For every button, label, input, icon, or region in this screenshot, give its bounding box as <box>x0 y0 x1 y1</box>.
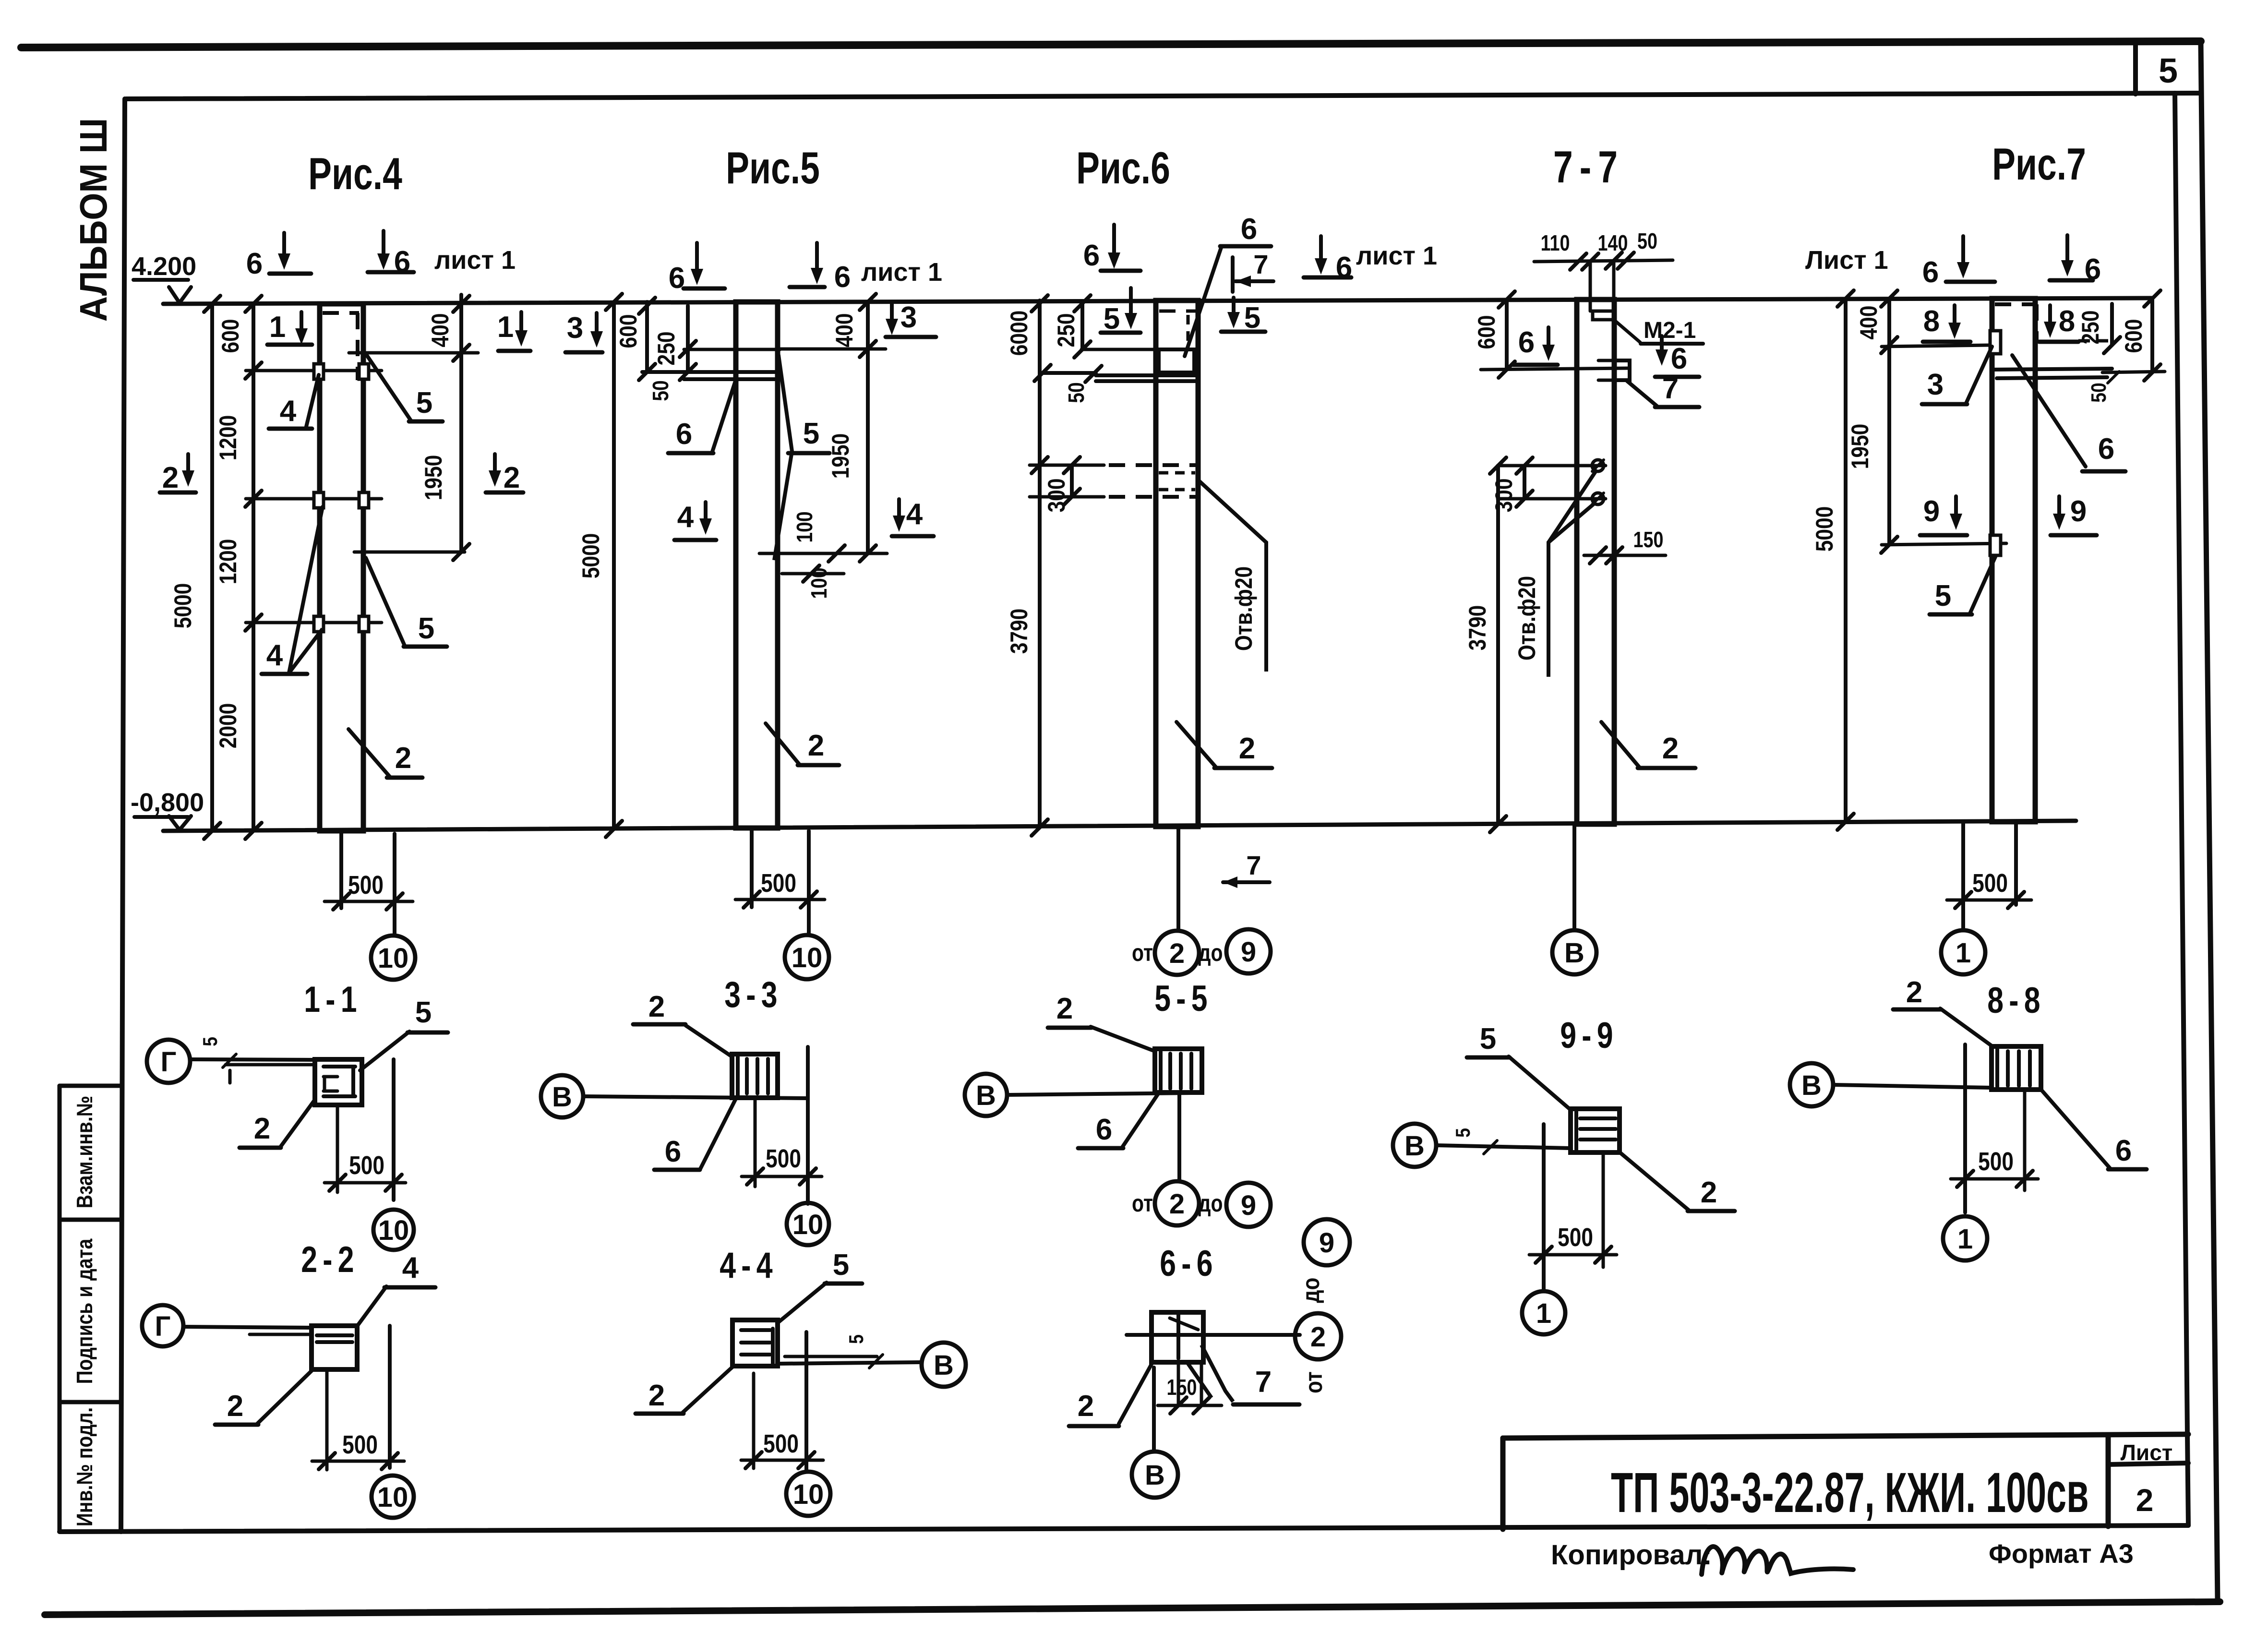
svg-text:7-7: 7-7 <box>1553 142 1624 192</box>
svg-text:6000: 6000 <box>1006 311 1032 356</box>
svg-text:4: 4 <box>906 498 923 531</box>
svg-text:лист 1: лист 1 <box>434 246 516 275</box>
svg-text:1950: 1950 <box>1847 424 1873 469</box>
svg-text:8: 8 <box>1923 305 1940 338</box>
svg-text:9-9: 9-9 <box>1560 1015 1618 1056</box>
svg-text:Лист 1: Лист 1 <box>1805 246 1888 275</box>
svg-text:Отв.ф20: Отв.ф20 <box>1513 576 1540 660</box>
svg-text:2: 2 <box>504 461 520 494</box>
svg-text:6: 6 <box>1922 256 1939 289</box>
svg-text:400: 400 <box>831 313 858 348</box>
svg-text:1: 1 <box>1957 1224 1973 1255</box>
svg-text:4: 4 <box>280 395 297 428</box>
svg-text:1-1: 1-1 <box>304 979 362 1020</box>
svg-text:Инв.№ подл.: Инв.№ подл. <box>72 1407 97 1526</box>
svg-text:2: 2 <box>1906 976 1922 1009</box>
svg-text:4: 4 <box>266 639 283 672</box>
svg-text:6: 6 <box>1518 326 1535 359</box>
svg-text:Взам.инв.№: Взам.инв.№ <box>72 1096 97 1209</box>
svg-text:2: 2 <box>2136 1482 2154 1518</box>
svg-text:50: 50 <box>1637 228 1657 253</box>
svg-text:10: 10 <box>793 1479 824 1510</box>
svg-text:5: 5 <box>1480 1022 1496 1056</box>
svg-text:2: 2 <box>648 990 665 1023</box>
svg-text:до: до <box>1198 1190 1223 1217</box>
svg-text:2000: 2000 <box>215 703 241 749</box>
svg-text:150: 150 <box>1167 1375 1197 1399</box>
svg-text:2: 2 <box>1078 1390 1094 1423</box>
svg-text:500: 500 <box>349 1151 384 1180</box>
svg-text:5000: 5000 <box>1811 506 1838 552</box>
svg-text:2: 2 <box>1169 1188 1185 1220</box>
svg-text:Лист: Лист <box>2121 1440 2173 1465</box>
svg-text:2: 2 <box>1239 732 1255 765</box>
svg-text:3: 3 <box>1927 368 1944 401</box>
svg-text:5: 5 <box>418 612 434 645</box>
svg-text:9: 9 <box>1319 1227 1334 1259</box>
svg-text:5: 5 <box>1935 579 1951 612</box>
svg-text:400: 400 <box>427 313 454 348</box>
svg-text:4: 4 <box>402 1251 419 1284</box>
svg-text:600: 600 <box>1473 315 1500 349</box>
svg-text:В: В <box>1404 1130 1425 1162</box>
svg-text:2: 2 <box>1056 992 1073 1025</box>
svg-text:6: 6 <box>2115 1134 2132 1167</box>
svg-text:3790: 3790 <box>1464 605 1491 651</box>
svg-text:4-4: 4-4 <box>720 1245 778 1286</box>
svg-text:6: 6 <box>665 1135 681 1168</box>
svg-text:Копировал:: Копировал: <box>1551 1539 1712 1571</box>
svg-text:Формат А3: Формат А3 <box>1989 1538 2134 1569</box>
svg-text:8: 8 <box>2059 305 2075 338</box>
svg-text:50: 50 <box>1064 382 1089 403</box>
svg-text:7: 7 <box>1255 1366 1272 1399</box>
svg-text:3: 3 <box>900 301 917 334</box>
svg-text:500: 500 <box>761 869 796 898</box>
svg-text:7: 7 <box>1662 372 1679 405</box>
svg-text:1: 1 <box>269 311 286 344</box>
svg-text:5: 5 <box>845 1334 867 1344</box>
svg-text:6: 6 <box>1241 213 1257 246</box>
svg-text:5: 5 <box>415 996 432 1029</box>
svg-text:600: 600 <box>2120 319 2147 353</box>
svg-text:500: 500 <box>1558 1223 1593 1252</box>
svg-text:6: 6 <box>676 418 692 451</box>
svg-text:Рис.5: Рис.5 <box>726 143 820 193</box>
svg-text:1: 1 <box>1956 937 1971 969</box>
svg-text:50: 50 <box>648 380 673 401</box>
svg-text:500: 500 <box>348 871 384 900</box>
svg-text:9: 9 <box>1241 936 1256 968</box>
svg-text:2: 2 <box>227 1390 243 1423</box>
svg-text:ТП 503-3-22.87, КЖИ. 100св: ТП 503-3-22.87, КЖИ. 100св <box>1611 1461 2088 1524</box>
svg-text:600: 600 <box>217 319 244 353</box>
svg-text:10: 10 <box>792 1209 824 1240</box>
svg-text:В: В <box>1564 937 1584 969</box>
svg-text:1950: 1950 <box>827 433 854 479</box>
svg-text:600: 600 <box>615 314 642 348</box>
svg-text:Г: Г <box>155 1311 171 1342</box>
svg-text:6-6: 6-6 <box>1160 1243 1218 1284</box>
svg-text:6: 6 <box>2098 432 2114 466</box>
svg-text:500: 500 <box>1978 1147 2014 1176</box>
svg-text:250: 250 <box>1053 313 1080 348</box>
svg-text:250: 250 <box>653 332 680 366</box>
svg-text:Отв.ф20: Отв.ф20 <box>1230 566 1257 651</box>
svg-text:В: В <box>1801 1070 1822 1101</box>
svg-text:1: 1 <box>497 311 514 344</box>
svg-text:2: 2 <box>648 1379 665 1412</box>
svg-text:500: 500 <box>342 1430 378 1459</box>
svg-text:1200: 1200 <box>215 415 241 461</box>
svg-text:Рис.7: Рис.7 <box>1992 139 2086 189</box>
svg-text:5: 5 <box>803 417 819 450</box>
svg-text:500: 500 <box>1972 869 2008 898</box>
svg-text:5000: 5000 <box>577 533 604 579</box>
svg-text:5: 5 <box>2159 52 2178 90</box>
svg-text:от: от <box>1132 939 1153 966</box>
svg-text:Г: Г <box>161 1046 177 1078</box>
svg-text:4.200: 4.200 <box>132 252 196 281</box>
svg-text:1200: 1200 <box>215 539 241 585</box>
svg-text:2: 2 <box>1701 1176 1717 1209</box>
svg-text:5: 5 <box>1452 1128 1474 1138</box>
svg-text:7: 7 <box>1253 249 1268 279</box>
svg-text:2: 2 <box>162 461 179 494</box>
svg-text:до: до <box>1297 1278 1324 1303</box>
svg-text:10: 10 <box>378 943 409 974</box>
svg-text:В: В <box>976 1080 996 1111</box>
svg-text:2: 2 <box>395 742 411 775</box>
svg-text:от: от <box>1132 1190 1153 1217</box>
svg-text:Рис.6: Рис.6 <box>1076 143 1170 193</box>
svg-text:3-3: 3-3 <box>724 974 782 1015</box>
svg-text:9: 9 <box>1241 1190 1256 1221</box>
svg-text:В: В <box>934 1350 954 1381</box>
svg-text:4: 4 <box>677 501 694 534</box>
svg-text:лист 1: лист 1 <box>1356 241 1437 270</box>
svg-text:Рис.4: Рис.4 <box>308 148 402 199</box>
svg-text:от: от <box>1300 1371 1327 1393</box>
svg-text:10: 10 <box>792 942 823 973</box>
svg-text:100: 100 <box>807 567 832 599</box>
svg-text:50: 50 <box>2087 383 2111 403</box>
svg-text:150: 150 <box>1633 527 1664 552</box>
svg-text:3: 3 <box>567 312 583 345</box>
svg-text:10: 10 <box>378 1215 409 1246</box>
svg-text:5: 5 <box>199 1037 221 1046</box>
svg-text:АЛЬБОМ Ш: АЛЬБОМ Ш <box>72 118 115 322</box>
svg-text:6: 6 <box>1083 239 1100 272</box>
svg-text:110: 110 <box>1541 230 1570 255</box>
svg-text:2: 2 <box>1310 1321 1326 1353</box>
svg-text:6: 6 <box>1096 1113 1112 1146</box>
svg-text:5-5: 5-5 <box>1154 978 1212 1019</box>
svg-text:5: 5 <box>416 386 432 420</box>
svg-text:6: 6 <box>246 247 263 280</box>
svg-text:2: 2 <box>254 1112 270 1145</box>
svg-text:5: 5 <box>833 1248 849 1282</box>
svg-text:3790: 3790 <box>1006 609 1032 654</box>
svg-text:В: В <box>552 1081 572 1113</box>
svg-text:-0,800: -0,800 <box>131 788 204 817</box>
svg-text:500: 500 <box>766 1144 801 1173</box>
svg-text:2: 2 <box>1169 938 1185 969</box>
svg-text:250: 250 <box>2077 311 2104 345</box>
svg-text:100: 100 <box>792 511 817 542</box>
svg-text:7: 7 <box>1246 850 1261 880</box>
svg-text:500: 500 <box>763 1429 799 1458</box>
svg-text:В: В <box>1145 1460 1165 1491</box>
svg-text:9: 9 <box>1923 495 1940 528</box>
svg-text:6: 6 <box>1671 342 1687 375</box>
svg-text:1950: 1950 <box>420 455 447 501</box>
svg-text:400: 400 <box>1855 306 1882 340</box>
svg-text:300: 300 <box>1490 479 1517 513</box>
svg-text:до: до <box>1198 939 1223 966</box>
svg-text:9: 9 <box>2070 495 2087 528</box>
svg-text:2-2: 2-2 <box>301 1239 359 1280</box>
svg-text:6: 6 <box>834 261 851 294</box>
svg-text:10: 10 <box>377 1482 408 1513</box>
svg-text:5000: 5000 <box>169 583 196 629</box>
svg-text:8-8: 8-8 <box>1987 980 2045 1021</box>
svg-text:Подпись и дата: Подпись и дата <box>72 1238 97 1384</box>
svg-text:2: 2 <box>808 729 824 762</box>
svg-text:1: 1 <box>1536 1298 1551 1329</box>
svg-text:М2-1: М2-1 <box>1644 318 1696 343</box>
svg-text:2: 2 <box>1662 732 1679 765</box>
svg-text:лист 1: лист 1 <box>861 258 942 287</box>
